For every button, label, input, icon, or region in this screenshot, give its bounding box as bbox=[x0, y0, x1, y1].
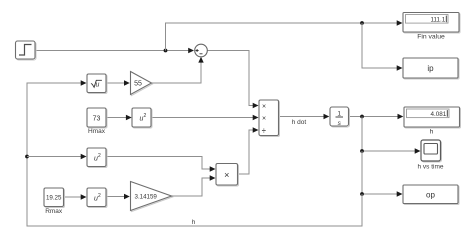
junction dot at scope branch bbox=[360, 149, 364, 153]
multiply block x bbox=[216, 164, 239, 187]
outport ip bbox=[403, 58, 459, 79]
wire: sqrt output to gain 55 bbox=[106, 82, 125, 84]
svg-text:h: h bbox=[430, 129, 434, 136]
arrowhead into multiply bottom bbox=[210, 175, 216, 180]
scope h vs time bbox=[421, 140, 442, 162]
svg-text:×: × bbox=[262, 116, 266, 123]
arrowhead into product input 2 bbox=[253, 115, 259, 120]
svg-text:h vs time: h vs time bbox=[417, 164, 443, 171]
junction dot on left feedback rail bbox=[25, 155, 29, 159]
arrowhead into ip bbox=[397, 65, 403, 70]
svg-text:Rmax: Rmax bbox=[45, 208, 63, 215]
wire: top rail down to ip block bbox=[362, 23, 398, 68]
wire: Rmax to u^2 #3 bbox=[64, 196, 83, 198]
arrowhead into u^2 #3 bbox=[81, 194, 87, 199]
gain 3.14159 bbox=[131, 182, 173, 212]
arrowhead into op bbox=[397, 191, 403, 196]
svg-text:Hmax: Hmax bbox=[88, 128, 106, 135]
arrowhead into display h bbox=[398, 114, 404, 119]
wire: product output to integrator, h dot bbox=[279, 116, 325, 118]
arrowhead into gain pi bbox=[124, 194, 130, 199]
svg-text:ip: ip bbox=[427, 64, 434, 73]
wire: sum output to product input 1 bbox=[207, 51, 253, 106]
arrowhead into integrator bbox=[324, 114, 330, 119]
gain 55 bbox=[131, 72, 153, 96]
arrowhead into gain 55 bbox=[124, 80, 130, 85]
math function u^2 #2 bbox=[87, 148, 107, 168]
outport op bbox=[403, 185, 459, 205]
wire: u^2 #3 to gain pi bbox=[106, 196, 125, 198]
junction dot on integrator output bbox=[360, 115, 364, 119]
svg-text:4.081: 4.081 bbox=[431, 111, 447, 118]
svg-text:h dot: h dot bbox=[292, 119, 307, 126]
arrowhead into sqrt bbox=[81, 80, 87, 85]
arrowhead into Fin value display bbox=[397, 20, 403, 25]
math function u^2 #3 bbox=[87, 188, 107, 208]
wire: integrator output to display h bbox=[349, 116, 399, 118]
svg-text:2: 2 bbox=[98, 193, 101, 199]
arrowhead up into sum - input bbox=[198, 57, 203, 63]
svg-text:73: 73 bbox=[93, 116, 101, 123]
junction dot at op branch bbox=[360, 192, 364, 196]
svg-text:op: op bbox=[426, 191, 435, 200]
arrowhead into sum + input bbox=[188, 48, 194, 53]
math function u^2 #1 bbox=[132, 108, 152, 128]
svg-text:u: u bbox=[96, 82, 100, 89]
svg-text:19.25: 19.25 bbox=[46, 195, 62, 202]
svg-text:×: × bbox=[224, 170, 229, 180]
wire: junction up to top rail toward Fin value display bbox=[166, 23, 399, 51]
wire: u^2 #1 output to product input 2 bbox=[151, 117, 253, 119]
svg-text:111.1: 111.1 bbox=[430, 17, 445, 24]
wire: h rail down to op bbox=[362, 151, 398, 194]
wire: gain 55 output to sum bottom input bbox=[152, 59, 202, 83]
svg-text:h: h bbox=[192, 219, 196, 226]
product block (3 inputs) bbox=[259, 100, 280, 137]
arrowhead into product input 3 bbox=[253, 127, 259, 132]
wire: branch to u^2 #2 bbox=[27, 156, 81, 158]
arrowhead into multiply top bbox=[210, 166, 216, 171]
wire: Hmax 73 to u^2 #1 bbox=[106, 117, 127, 119]
wire: h rail down to scope bbox=[362, 117, 416, 152]
svg-text:2: 2 bbox=[144, 113, 147, 119]
svg-text:Fin value: Fin value bbox=[417, 34, 445, 41]
display Fin value bbox=[403, 13, 460, 34]
display h bbox=[404, 107, 461, 128]
integrator 1/s bbox=[330, 107, 350, 127]
junction dot on top rail bbox=[360, 21, 364, 25]
wire: gain pi output to multiply bottom input bbox=[172, 178, 211, 196]
arrowhead into u^2 #1 bbox=[126, 115, 132, 120]
svg-text:2: 2 bbox=[98, 153, 101, 159]
constant 19.25 Rmax bbox=[44, 188, 65, 208]
svg-text:55: 55 bbox=[134, 81, 142, 88]
sum block bbox=[195, 44, 208, 57]
svg-text:×: × bbox=[262, 104, 266, 111]
sqrt block bbox=[87, 74, 107, 94]
arrowhead into u^2 #2 bbox=[81, 154, 87, 159]
junction dot on step output bbox=[164, 49, 168, 53]
arrowhead into scope bbox=[415, 148, 421, 153]
wire: u^2 #2 output to multiply top input bbox=[106, 157, 210, 170]
wire: h feedback loop bottom and left side up to sqrt bbox=[27, 83, 362, 226]
svg-text:1: 1 bbox=[337, 110, 341, 117]
arrowhead into product input 1 bbox=[253, 103, 259, 108]
wire: multiply output to product input 3 bbox=[238, 130, 254, 174]
step source block bbox=[16, 41, 37, 60]
svg-text:÷: ÷ bbox=[262, 126, 266, 135]
svg-text:3.14159: 3.14159 bbox=[135, 194, 158, 201]
constant 73 Hmax bbox=[87, 108, 107, 128]
wire: step output to sum bbox=[35, 50, 189, 52]
